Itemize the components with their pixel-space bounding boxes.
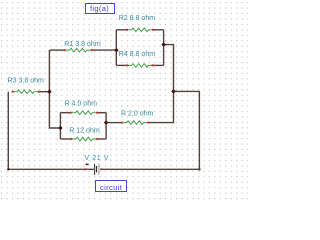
svg-text:circuit: circuit bbox=[100, 183, 123, 192]
terminal dot R2.0 left bbox=[121, 121, 123, 123]
svg-text:R 12 ohm: R 12 ohm bbox=[69, 127, 100, 134]
wire: bottom rail right section from battery to bottom-right corner and up to node at (199.4,91.4) bbox=[100, 91, 199, 169]
wire: R2/R4 parallel block left vertical bbox=[115, 30, 117, 66]
resistor R2 8.8 ohm bbox=[116, 15, 163, 31]
resistor R1 3.8 ohm bbox=[49, 41, 116, 52]
terminal dot R3 left bbox=[12, 91, 14, 93]
wire: R4.0/R12 combo left vertical bbox=[59, 113, 61, 139]
node: junction on R2/R4 right vertical bbox=[161, 42, 166, 47]
terminal dot R12 right bbox=[96, 138, 98, 140]
wire: R2 row left stub bbox=[116, 29, 127, 31]
node: bottom-left corner blob bbox=[7, 168, 10, 171]
terminal dot battery left bbox=[84, 168, 86, 170]
label box fig(a) bbox=[86, 4, 115, 14]
terminal dot R1 right bbox=[91, 49, 93, 51]
terminal dot R4.0 left bbox=[70, 112, 72, 114]
node: junction feed into combo left vertical bbox=[58, 126, 63, 131]
svg-text:R 2.0 ohm: R 2.0 ohm bbox=[121, 111, 154, 118]
wire: R4.0 row right stub bbox=[97, 112, 106, 114]
wire: R12 row right stub bbox=[97, 138, 106, 140]
resistor R4 8.8 ohm bbox=[116, 51, 163, 67]
battery gray plate (right) bbox=[98, 164, 100, 165]
terminal dot R1 left bbox=[64, 49, 66, 51]
terminal dot R2 right bbox=[152, 29, 154, 31]
svg-text:R4 8.8 ohm: R4 8.8 ohm bbox=[119, 51, 156, 58]
svg-text:fig(a): fig(a) bbox=[90, 4, 109, 13]
resistor R 2.0 ohm bbox=[106, 111, 154, 125]
battery plate short (middle) bbox=[96, 166, 97, 172]
wire: R4.0 row left stub bbox=[60, 112, 70, 114]
svg-text:R1 3.8 ohm: R1 3.8 ohm bbox=[64, 41, 101, 48]
battery polarity arrow bbox=[85, 163, 87, 166]
wire: R1 row right lead to parallel block bbox=[92, 49, 117, 51]
terminal dot R12 left bbox=[70, 138, 72, 140]
node: junction of R1 with R2/R4 left vertical bbox=[114, 48, 119, 53]
wire: R2 row right stub bbox=[153, 29, 164, 31]
resistor R 12 ohm bbox=[60, 127, 106, 141]
wire: jumper from R2/R4 right vertical to long right-side drop bbox=[148, 45, 173, 123]
svg-text:R 4.0 ohm: R 4.0 ohm bbox=[65, 100, 98, 107]
terminal dot R3 right bbox=[38, 91, 40, 93]
svg-text:R3 3.8 ohm: R3 3.8 ohm bbox=[8, 77, 45, 84]
node: junction where branch to bottom-right leaves the drop wire bbox=[171, 89, 176, 94]
wire: R4 row right stub bbox=[153, 64, 164, 66]
terminal dot R4 left bbox=[126, 64, 128, 66]
terminal dot R4.0 right bbox=[96, 112, 98, 114]
terminal dot battery right bbox=[100, 168, 102, 170]
node: junction of R2.0 branch on combo right vertical bbox=[104, 120, 109, 125]
wire: middle-left vertical from R1 corner down past R3 node to R4.0/R12 combo left node bbox=[49, 50, 60, 128]
wire: R2/R4 parallel block right vertical bbox=[163, 30, 165, 66]
terminal dot R2.0 right bbox=[147, 121, 149, 123]
wire: left outer loop from R3 left corner down to bottom rail bbox=[8, 92, 94, 170]
node: junction of R3 with middle-left vertical bbox=[47, 89, 52, 94]
battery plate long (left) bbox=[94, 164, 95, 175]
svg-text:R2 8.8 ohm: R2 8.8 ohm bbox=[119, 15, 156, 22]
battery V 21 V bbox=[84, 155, 109, 175]
node: bottom-right corner blob bbox=[198, 168, 201, 171]
terminal dot R2 left bbox=[126, 29, 128, 31]
wire: R1 row left lead bbox=[49, 49, 64, 51]
wire: R3 right lead to node bbox=[39, 91, 50, 93]
wire: R4.0/R12 combo right vertical bbox=[105, 113, 107, 139]
wire: R4 row left stub bbox=[116, 64, 127, 66]
wire: R2.0 left lead from combo right node bbox=[106, 122, 122, 124]
terminal dot R4 right bbox=[151, 64, 153, 66]
resistor R 4.0 ohm bbox=[60, 100, 106, 114]
label box circuit bbox=[96, 181, 127, 192]
svg-text:V 21 V: V 21 V bbox=[85, 155, 109, 162]
wire: R12 row left stub bbox=[60, 138, 71, 140]
resistor R3 3.8 ohm bbox=[8, 77, 50, 93]
